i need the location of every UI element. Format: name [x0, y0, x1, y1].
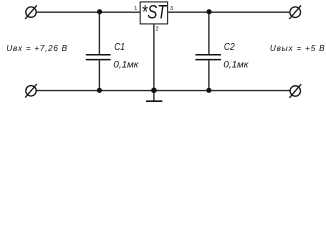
capacitor C1	[86, 12, 111, 90]
svg-text:3: 3	[170, 6, 173, 12]
ground	[146, 91, 162, 102]
capacitor C2	[195, 12, 221, 90]
svg-text:C1: C1	[114, 42, 125, 53]
wire top rail left segment	[37, 11, 141, 13]
terminal output top-right	[289, 5, 301, 19]
terminal common bottom-left	[25, 84, 37, 98]
node junction bottom ground	[151, 88, 157, 94]
svg-text:1: 1	[134, 6, 137, 12]
svg-text:0,1мк: 0,1мк	[223, 60, 249, 71]
svg-text:Uвых = +5 В: Uвых = +5 В	[270, 44, 326, 53]
terminal input top-left	[25, 5, 37, 19]
wire pin2 to ground rail	[153, 24, 155, 91]
node junction bottom C2	[206, 88, 211, 93]
svg-text:C2: C2	[224, 42, 235, 53]
svg-text:Uвх = +7,26 В: Uвх = +7,26 В	[6, 44, 67, 53]
op-amp regulator U1 box	[140, 2, 167, 24]
svg-text:0,1мк: 0,1мк	[113, 60, 139, 71]
svg-text:*ST: *ST	[142, 2, 168, 24]
node junction top C2	[207, 9, 212, 14]
wire bottom rail	[36, 90, 290, 92]
svg-text:2: 2	[156, 26, 159, 32]
wire top rail right segment	[168, 11, 291, 13]
node junction bottom C1	[97, 88, 102, 93]
node junction top C1	[97, 9, 102, 14]
terminal common bottom-right	[290, 84, 302, 98]
